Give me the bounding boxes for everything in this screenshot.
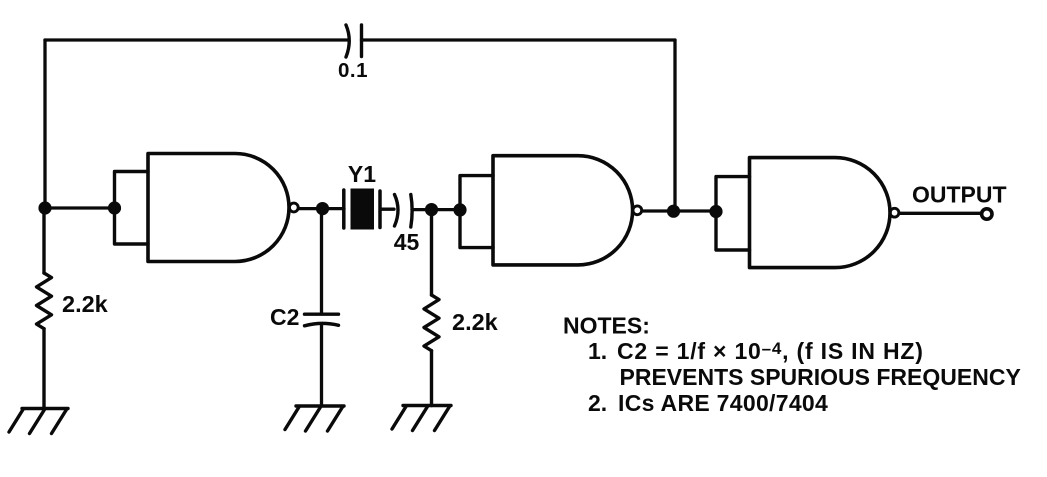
NAND gate 3 body bbox=[750, 158, 891, 268]
svg-text:C2 = 1/f × 10–4, (f IS IN HZ): C2 = 1/f × 10–4, (f IS IN HZ) bbox=[617, 338, 924, 364]
wire gate3 output bbox=[899, 212, 980, 215]
svg-text:Y1: Y1 bbox=[348, 161, 376, 187]
node R2 junction bbox=[425, 203, 438, 216]
notes text bbox=[563, 313, 1021, 417]
capacitor 45 bbox=[395, 195, 413, 228]
svg-text:2.: 2. bbox=[588, 390, 607, 416]
crystal Y1 bbox=[344, 189, 380, 230]
NAND gate 3 input bracket bbox=[716, 177, 750, 250]
svg-text:NOTES:: NOTES: bbox=[563, 313, 650, 339]
wire input node to gate1 bbox=[45, 206, 115, 209]
wire C2 lower bbox=[320, 326, 323, 407]
wire capacitor 45 to gate2 bbox=[412, 208, 460, 211]
svg-text:PREVENTS SPURIOUS FREQUENCY: PREVENTS SPURIOUS FREQUENCY bbox=[620, 364, 1021, 390]
NAND gate 2 body bbox=[493, 156, 633, 265]
wire feedback left vertical bbox=[43, 40, 46, 208]
wire gate1 output to crystal bbox=[299, 207, 345, 210]
node gate1 input junction bbox=[108, 201, 121, 214]
ground G3 bbox=[392, 406, 451, 431]
NAND gate 1 bubble bbox=[289, 203, 298, 212]
NAND gate 2 input bracket bbox=[460, 176, 493, 248]
node gate3 input junction bbox=[709, 205, 722, 218]
output terminal bbox=[982, 209, 992, 219]
resistor R1 2.2k bbox=[37, 214, 52, 408]
svg-text:0.1: 0.1 bbox=[338, 59, 368, 82]
svg-text:2.2k: 2.2k bbox=[452, 309, 499, 335]
capacitor 0.1 bbox=[346, 25, 362, 57]
NAND gate 3 bubble bbox=[890, 208, 899, 217]
svg-text:1.: 1. bbox=[588, 338, 607, 364]
svg-text:2.2k: 2.2k bbox=[62, 291, 109, 317]
NAND gate 1 input bracket bbox=[115, 172, 149, 245]
wire crystal to capacitor 45 bbox=[381, 208, 394, 211]
node gate2 input junction bbox=[453, 203, 466, 216]
node feedback junction bbox=[667, 205, 680, 218]
NAND gate 1 body bbox=[148, 154, 289, 262]
resistor R2 2.2k bbox=[424, 216, 439, 406]
svg-text:OUTPUT: OUTPUT bbox=[912, 181, 1007, 207]
ground G2 bbox=[285, 406, 344, 431]
svg-text:C2: C2 bbox=[270, 304, 299, 330]
wire feedback right vertical bbox=[673, 40, 676, 211]
capacitor C2 bbox=[305, 314, 339, 326]
wire gate2 output to gate3 bbox=[642, 209, 716, 212]
NAND gate 2 bubble bbox=[633, 206, 642, 215]
wire C2 upper bbox=[320, 209, 323, 313]
svg-text:45: 45 bbox=[394, 229, 420, 255]
node C2 junction bbox=[316, 202, 329, 215]
node left input junction bbox=[38, 201, 51, 214]
svg-text:ICs ARE 7400/7404: ICs ARE 7400/7404 bbox=[618, 390, 828, 416]
wire feedback top horizontal left part bbox=[45, 38, 347, 41]
wire feedback top horizontal right part bbox=[362, 38, 676, 41]
ground G1 bbox=[9, 409, 68, 434]
